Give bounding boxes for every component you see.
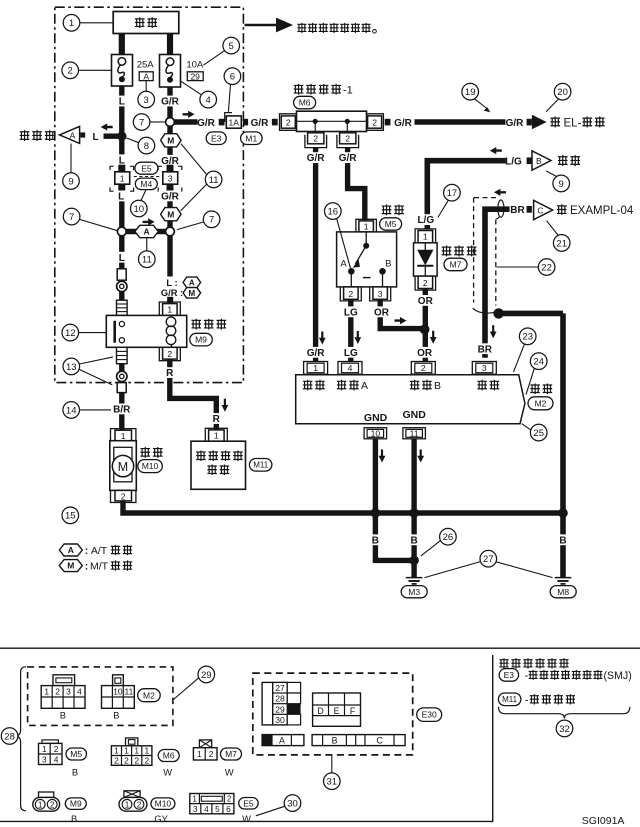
text super multiple junction (SMJ): [525, 670, 632, 682]
callout 14: [63, 402, 111, 419]
connector plug M6 bottom pin 2b: [337, 133, 359, 148]
svg-text::: :: [85, 545, 89, 557]
connector face view M10: [119, 791, 147, 811]
callout 16: [325, 203, 351, 268]
diode M7 body: [414, 243, 438, 276]
svg-text:2: 2: [144, 756, 149, 766]
wire right drop BR/B to ground M8: [560, 313, 566, 577]
diode pin 2: [415, 276, 436, 290]
junction dot OR switch-diode: [420, 325, 430, 335]
wire label L/G at next-page exit: [505, 157, 522, 168]
svg-text:G/R: G/R: [307, 153, 326, 164]
svg-text:E30: E30: [422, 710, 437, 720]
junction dot ground link: [409, 556, 419, 566]
dashed SMJ split line: [134, 176, 160, 178]
svg-text:M9: M9: [195, 335, 207, 345]
svg-text:2: 2: [54, 744, 59, 754]
inline ring and box on left bus below relay: [117, 371, 127, 392]
svg-text:OR: OR: [374, 307, 390, 318]
svg-text:E5: E5: [243, 798, 254, 808]
wire ground link below bus: [375, 513, 414, 560]
svg-text:1: 1: [42, 744, 47, 754]
svg-text:1: 1: [313, 363, 318, 373]
svg-text:G/R: G/R: [307, 348, 326, 359]
svg-text:A: A: [361, 380, 368, 392]
svg-text:1: 1: [423, 232, 428, 242]
arrow down beside G/R above unit pin1: [319, 332, 326, 345]
battery: [113, 12, 179, 34]
svg-text:29: 29: [275, 704, 285, 714]
svg-text:OR: OR: [417, 348, 433, 359]
unit pin 11 GND: [403, 428, 426, 439]
svg-text:2: 2: [421, 363, 426, 373]
svg-text:5: 5: [229, 41, 234, 52]
svg-text:B: B: [60, 711, 66, 721]
text to EXAMPL-04: [557, 204, 634, 217]
svg-text:10A: 10A: [186, 60, 204, 71]
callout 26: [421, 528, 456, 556]
arrow down beside OR junction: [430, 331, 437, 344]
svg-text:2: 2: [209, 749, 214, 759]
svg-text:L :: L :: [166, 278, 177, 288]
callout 5: [203, 37, 239, 65]
wire label G/R to EL exit: [394, 118, 413, 129]
svg-text:7: 7: [69, 212, 74, 223]
svg-text:L/G: L/G: [417, 215, 434, 226]
wire label L above connector 1: [117, 154, 127, 166]
svg-text:30: 30: [287, 799, 298, 810]
svg-text:2: 2: [114, 756, 119, 766]
svg-text:1: 1: [144, 746, 149, 756]
junction dot BR branch: [493, 308, 503, 318]
dashed box M2 connector views: [28, 667, 173, 726]
svg-text:1: 1: [364, 222, 369, 232]
svg-text:B: B: [536, 156, 542, 166]
wire left bus fuse F1 down to relay: [119, 85, 124, 301]
wire relay pin2 R to motor control module pin1: [170, 359, 217, 431]
svg-text:30: 30: [275, 715, 285, 725]
text unit: [530, 383, 552, 394]
svg-text:15: 15: [65, 511, 76, 522]
svg-text:G/R: G/R: [506, 118, 525, 129]
callout 29: [174, 666, 215, 699]
svg-text:1: 1: [120, 173, 125, 183]
connector triangle C to EXAMPL-04: [527, 200, 553, 219]
svg-text:M: M: [167, 135, 174, 145]
svg-text:E: E: [334, 706, 340, 716]
callout 8: [126, 137, 154, 154]
callout 20: [546, 83, 571, 111]
connector label M2 face: [138, 689, 161, 702]
text see following content: [499, 658, 568, 668]
ground symbol M3: [406, 578, 423, 584]
svg-text:23: 23: [522, 332, 533, 343]
E30 strip B C: [312, 735, 405, 746]
wire label G/R below fuse F2: [159, 96, 182, 108]
svg-text:2: 2: [167, 349, 172, 359]
svg-text:BR: BR: [510, 205, 525, 216]
connector label M9 face: [65, 798, 86, 824]
connector face view M2-b: [102, 675, 135, 721]
text next page: [558, 155, 580, 166]
svg-text:W: W: [225, 768, 234, 778]
svg-text:27: 27: [483, 554, 494, 565]
svg-text:-1: -1: [343, 85, 353, 97]
svg-text:A: A: [279, 736, 285, 746]
callout 28 with brace: [1, 667, 26, 811]
connector label M6 schematic: [294, 96, 316, 109]
svg-text:4: 4: [206, 95, 211, 106]
wire label G/R before 1A: [197, 118, 216, 129]
connector label M2 schematic: [528, 397, 553, 410]
svg-text:14: 14: [66, 405, 77, 416]
svg-text:2: 2: [124, 756, 129, 766]
svg-text:B: B: [372, 535, 379, 546]
svg-text:M3: M3: [408, 587, 420, 597]
svg-text:M10: M10: [155, 799, 172, 809]
connector label M3: [401, 586, 427, 598]
svg-text:1: 1: [214, 431, 219, 441]
callout 24: [526, 353, 547, 395]
unit pin 2 position B: [411, 362, 435, 375]
svg-text:1: 1: [134, 746, 139, 756]
relay pin 2: [159, 347, 180, 360]
callout 25: [522, 424, 547, 441]
svg-text:B: B: [113, 711, 119, 721]
callout 4: [181, 81, 217, 108]
wire left bus relay to motor pin1 B/R: [119, 364, 124, 432]
text signal: [477, 380, 499, 391]
callout 31: [324, 755, 341, 790]
svg-text:13: 13: [66, 362, 77, 373]
connector face view M7: [193, 740, 217, 760]
svg-text:3: 3: [482, 363, 487, 373]
text SGI091A: [582, 815, 625, 827]
svg-text:M1: M1: [245, 133, 257, 143]
svg-text:OR: OR: [418, 296, 434, 307]
variant hex M legend: [59, 560, 132, 573]
svg-text:25: 25: [533, 428, 544, 439]
callout 11 upper: [181, 144, 222, 211]
svg-text:1A: 1A: [229, 117, 240, 127]
connector label E5 between buses: [135, 162, 158, 174]
wire label R below relay pin2: [165, 367, 175, 379]
text GND left: [364, 412, 388, 424]
separator line top of legend: [0, 647, 640, 649]
text position B: [410, 380, 441, 392]
wire label OR below diode: [417, 295, 433, 307]
svg-text:10: 10: [113, 687, 123, 697]
callout 15: [62, 507, 79, 524]
wire label G/R above unit pin1: [304, 347, 327, 359]
svg-text:3: 3: [66, 687, 71, 697]
connector face view M9: [33, 792, 60, 811]
svg-text:G/R: G/R: [394, 118, 413, 129]
switch pin 1: [356, 219, 377, 232]
unit pin 4 position A: [338, 362, 362, 375]
connector face view E5: [190, 794, 234, 814]
connector face view M2-a 4pin: [41, 675, 85, 721]
svg-text:11: 11: [142, 255, 152, 266]
svg-text:4: 4: [54, 754, 59, 764]
diode pin 1: [415, 229, 436, 243]
svg-text:M: M: [188, 289, 195, 298]
svg-text:A: A: [340, 259, 347, 270]
fuse F1 25A: [112, 55, 133, 87]
svg-text:25A: 25A: [137, 60, 155, 71]
svg-text:LG: LG: [344, 307, 358, 318]
svg-text:M2: M2: [143, 690, 155, 700]
wire label LG above unit pin4: [343, 347, 359, 359]
callout 1: [63, 14, 113, 31]
SMJ terminal 1A: [219, 113, 248, 129]
svg-text:E3: E3: [504, 670, 515, 680]
svg-text:B: B: [410, 535, 417, 546]
svg-text:B: B: [72, 768, 78, 778]
wire label G/R below M6 pin 2a: [304, 152, 327, 164]
callout 11 lower: [139, 238, 156, 267]
wire label BR above unit pin3: [477, 343, 493, 355]
wire label L at page-left stub: [93, 132, 99, 143]
svg-text:(SMJ): (SMJ): [604, 670, 632, 682]
callout 19: [462, 83, 490, 112]
svg-text:19: 19: [465, 87, 476, 98]
connector plug M6 bottom pin 2a: [305, 133, 327, 148]
svg-text:2: 2: [55, 687, 60, 697]
arrow left on BR wire: [494, 189, 506, 196]
switch pin 3: [370, 287, 391, 301]
text see selective splice note: [297, 23, 376, 33]
connector label M4 between buses: [135, 178, 157, 190]
callout 9 right: [546, 171, 570, 192]
wire switch pin3 OR to junction: [380, 299, 421, 329]
svg-text:M6: M6: [299, 98, 311, 108]
svg-text:GND: GND: [403, 409, 427, 421]
connector label M10: [138, 460, 163, 473]
wire label L below connector 1: [116, 191, 126, 203]
svg-text:2: 2: [372, 118, 377, 128]
svg-text:3: 3: [144, 95, 149, 106]
node open circle right bus lower: [166, 227, 175, 236]
svg-text:GY: GY: [154, 814, 167, 824]
svg-text:1: 1: [124, 746, 129, 756]
text switch: [382, 204, 404, 215]
svg-text:L/G: L/G: [505, 157, 522, 168]
svg-text:10: 10: [134, 204, 145, 215]
svg-text:8: 8: [144, 141, 149, 152]
relay pin 1: [159, 297, 180, 316]
svg-text:11: 11: [410, 429, 419, 439]
text previous page: [20, 130, 55, 141]
relay M9 box: [106, 315, 186, 347]
connector label M5 schematic: [380, 218, 402, 230]
SMJ connector pin 3 on right bus (E5/M4): [158, 165, 182, 192]
E30 terminal grid D E F: [313, 693, 361, 726]
svg-text:A: A: [143, 72, 149, 82]
svg-text:M7: M7: [225, 749, 237, 759]
hatch connector below relay: [117, 347, 128, 363]
wire label L/G above diode: [415, 214, 438, 226]
callout 7 right node: [177, 211, 220, 230]
svg-text:6: 6: [230, 72, 235, 83]
wire node-to-node horizontal through variant hex A: [122, 229, 170, 234]
svg-text:21: 21: [556, 238, 567, 249]
svg-text:G/R :: G/R :: [161, 288, 183, 298]
wire label B below bus at pin10 drop: [370, 534, 380, 546]
callout 13: [63, 357, 113, 385]
svg-text:32: 32: [559, 724, 570, 735]
svg-text:22: 22: [541, 262, 552, 273]
svg-text:2: 2: [348, 289, 353, 299]
svg-text:A: A: [68, 545, 74, 555]
SMJ connector pin 1 on left bus (E5/M4): [110, 165, 134, 192]
callout 7 at G/R node: [133, 114, 165, 131]
exit arrow to EL example: [527, 115, 547, 130]
connector label E30: [417, 708, 442, 722]
svg-text:B: B: [71, 814, 77, 824]
variant hex M on right bus lower: [161, 208, 182, 221]
svg-text:-: -: [525, 695, 529, 707]
svg-text:11: 11: [209, 175, 219, 186]
node open circle left bus: [117, 227, 126, 236]
callout 10: [131, 189, 148, 216]
connector triangle B next page: [527, 151, 551, 170]
svg-text:L: L: [119, 253, 125, 264]
switch pin 2: [340, 287, 361, 301]
connector label E5 face: [239, 798, 259, 825]
connector label M8: [550, 586, 576, 598]
svg-text:B: B: [559, 535, 566, 546]
connector label M9: [190, 333, 213, 346]
motor control module M11 box: [191, 441, 246, 489]
callout 3: [138, 81, 155, 108]
wire stub junction to page-left connector A: [104, 133, 122, 138]
variant hex M on right bus upper: [161, 134, 182, 147]
svg-text:6: 6: [226, 805, 231, 814]
svg-text:17: 17: [447, 188, 458, 199]
svg-text:1: 1: [167, 305, 172, 315]
svg-text:2: 2: [68, 66, 73, 77]
wire motor pin2 to bottom ground bus: [123, 500, 563, 513]
wire label LG below switch pin2: [343, 306, 359, 318]
svg-text:M7: M7: [450, 260, 462, 270]
svg-text:E5: E5: [141, 163, 152, 173]
wire label G/R after 1A: [251, 118, 270, 129]
arrow to see selective node note: [245, 18, 294, 33]
callout 7 left node: [63, 208, 117, 230]
text electrical unit: [525, 694, 575, 706]
connector label M1: [241, 132, 263, 145]
text motor: [140, 447, 162, 458]
legend vertical divider: [492, 655, 494, 822]
svg-text:2: 2: [227, 795, 232, 804]
svg-text:2: 2: [137, 801, 142, 810]
wire label R above module pin1: [211, 413, 221, 425]
connector label E3: [206, 132, 226, 145]
dashed box E30 connector views: [253, 673, 413, 755]
switch M5 body: [337, 232, 397, 287]
junction dot bus pin10: [371, 508, 381, 518]
callout 27: [425, 550, 553, 577]
svg-text:11: 11: [125, 687, 134, 697]
svg-text:M6: M6: [163, 751, 175, 761]
svg-text:M: M: [67, 561, 74, 571]
svg-text:SGI091A: SGI091A: [582, 815, 625, 827]
svg-text:G/R: G/R: [161, 97, 180, 108]
svg-text:M/T: M/T: [90, 561, 109, 573]
connector label M6 face: [158, 750, 179, 778]
svg-text:M5: M5: [70, 749, 82, 759]
svg-text:29: 29: [201, 670, 212, 681]
wire label OR above unit pin2: [416, 347, 432, 359]
svg-text:R: R: [166, 368, 174, 379]
wire label OR below switch pin3: [373, 306, 389, 318]
svg-text:A: A: [70, 130, 76, 140]
fuse F2 10A: [160, 55, 181, 88]
svg-text:C: C: [376, 736, 383, 746]
svg-text:A: A: [189, 278, 195, 287]
svg-text:10: 10: [371, 429, 381, 439]
svg-text:2: 2: [313, 134, 318, 144]
unit pin 10 GND: [364, 428, 387, 439]
wire right bus node down to relay pin1: [167, 232, 172, 304]
svg-text:M: M: [118, 460, 128, 474]
svg-text:EL-: EL-: [564, 117, 582, 129]
svg-text:M8: M8: [557, 587, 569, 597]
callout 17: [438, 184, 460, 217]
wire label G/R below connector 3: [159, 191, 182, 203]
wire label B on right drop: [558, 534, 568, 546]
unit pin 1 power: [304, 362, 328, 375]
svg-text:4: 4: [204, 805, 209, 814]
svg-text:31: 31: [327, 777, 338, 788]
arrow down beside LG above unit pin4: [354, 331, 361, 344]
svg-text:D: D: [317, 706, 323, 716]
arrow down on BR drop: [490, 325, 497, 338]
svg-text:M11: M11: [502, 695, 518, 704]
text GND right: [403, 409, 427, 421]
unit M2 box: [296, 375, 525, 424]
svg-text:3: 3: [378, 289, 383, 299]
svg-text:G/R: G/R: [197, 118, 216, 129]
svg-text:A: A: [144, 227, 150, 237]
svg-text:M2: M2: [535, 398, 547, 408]
callout 12: [62, 324, 106, 341]
connector label M7 face: [221, 748, 242, 778]
arrow down beside R wire: [222, 399, 229, 412]
svg-text:M4: M4: [140, 179, 152, 189]
label 10A and rating box 29: [186, 60, 204, 82]
svg-text:12: 12: [65, 328, 76, 339]
connector label M7 schematic: [444, 258, 467, 271]
svg-text:7: 7: [209, 215, 214, 226]
text relay: [191, 319, 226, 330]
motor pin 2: [111, 490, 136, 502]
callout 9 left: [63, 144, 80, 190]
wire switch pin2 LG down to unit pin4: [348, 299, 353, 362]
variant hex A between nodes: [135, 225, 159, 237]
wire BR from EXAMPL exit down to unit pin3 signal: [485, 209, 510, 358]
text diode: [442, 246, 477, 257]
wire BR branch junction to right drop: [499, 311, 563, 317]
svg-text:1: 1: [38, 801, 43, 810]
callout 21: [547, 221, 570, 252]
wire label L on left bus above inline connector: [117, 252, 127, 264]
svg-text:2: 2: [121, 491, 126, 501]
svg-text:1: 1: [192, 795, 197, 804]
svg-text:G/R: G/R: [161, 192, 180, 203]
arrow left on L/G wire: [490, 147, 502, 154]
